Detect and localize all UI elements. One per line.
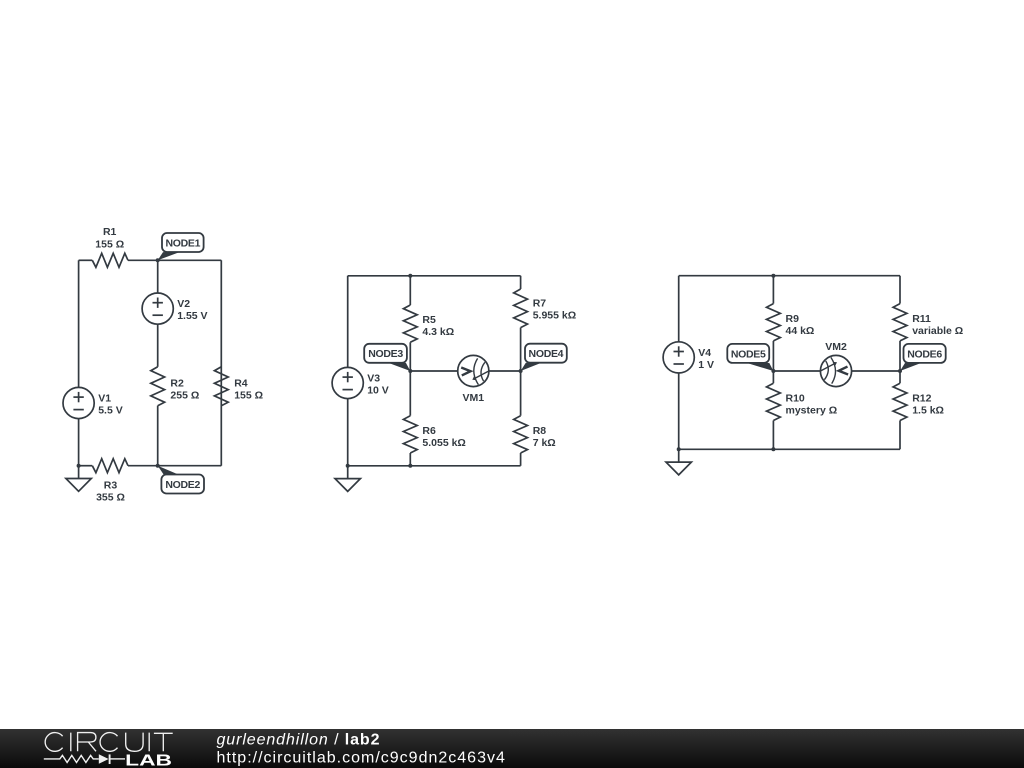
node NODE5 flag: [747, 363, 773, 371]
resistor R2: [151, 367, 165, 406]
junction dot circuit2 bottom-mid: [408, 464, 412, 468]
svg-text:1 V: 1 V: [698, 359, 714, 371]
resistor R6: [403, 416, 417, 453]
resistor R12: [893, 383, 907, 420]
logo CIRCUIT thin letters: [45, 733, 173, 752]
svg-text:R2: R2: [170, 377, 184, 389]
node NODE4 flag: [521, 363, 542, 371]
resistor R11: [893, 304, 907, 341]
junction dot node4: [519, 369, 523, 373]
svg-text:R1: R1: [103, 226, 117, 238]
svg-text:4.3 kΩ: 4.3 kΩ: [422, 326, 454, 338]
wire: circuit1 top-left segment: [79, 259, 93, 261]
junction dot circuit3 bottom-mid: [771, 447, 775, 451]
wire: VM1 to node4: [489, 370, 521, 372]
svg-text:R12: R12: [912, 393, 931, 405]
wire: circuit1 left branch lower: [78, 419, 80, 466]
wire: circuit3 left branch lower: [678, 373, 680, 449]
wire: R11 to R12 through node6: [899, 341, 901, 383]
wire: circuit1 bottom left stub: [79, 465, 93, 467]
ground circuit3: [678, 449, 680, 462]
wire: circuit1 top to node1: [128, 259, 221, 261]
resistor R1: [92, 253, 128, 267]
svg-text:NODE4: NODE4: [529, 348, 564, 360]
wire: circuit3 left branch upper: [678, 276, 680, 342]
wire: circuit1 right branch: [220, 260, 222, 465]
wire: V2 to R2: [157, 324, 159, 367]
voltage source V2: [142, 293, 173, 324]
junction dot node1: [156, 258, 160, 262]
wire: circuit1 bottom to right: [128, 465, 221, 467]
voltmeter VM2: [820, 355, 851, 386]
wire: circuit2 mid branch top: [409, 276, 411, 305]
wire: circuit2 top rail: [348, 275, 521, 277]
wire: R10 to bottom rail: [772, 421, 774, 450]
wire: R7 to R8 through node4: [520, 328, 522, 416]
svg-text:NODE3: NODE3: [368, 348, 403, 360]
junction dot node2: [156, 464, 160, 468]
resistor R9: [767, 304, 781, 341]
svg-text:R10: R10: [786, 393, 805, 405]
wire: R9 to node5: [772, 341, 774, 371]
wire: circuit2 left branch upper: [347, 276, 349, 368]
resistor R4: [214, 367, 228, 406]
junction dot node3: [408, 369, 412, 373]
svg-text:5.955 kΩ: 5.955 kΩ: [533, 310, 576, 322]
svg-text:LAB: LAB: [125, 752, 172, 768]
svg-text:1.55 V: 1.55 V: [177, 310, 207, 322]
junction dot circuit3 bottom-left: [677, 447, 681, 451]
wire: circuit3 bottom rail: [679, 448, 900, 450]
wire: R5 to node3: [409, 342, 411, 371]
svg-text:7 kΩ: 7 kΩ: [533, 437, 556, 449]
svg-text:NODE1: NODE1: [165, 237, 200, 249]
svg-text:355 Ω: 355 Ω: [96, 492, 125, 504]
svg-text:255 Ω: 255 Ω: [170, 389, 199, 401]
wire: circuit3 mid branch top: [772, 276, 774, 304]
svg-text:155 Ω: 155 Ω: [234, 389, 263, 401]
wire: node1 down to V2: [157, 260, 159, 293]
svg-text:V1: V1: [98, 392, 111, 404]
svg-text:10 V: 10 V: [367, 384, 389, 396]
wire: circuit2 left branch lower: [347, 399, 349, 466]
svg-text:R3: R3: [104, 480, 118, 492]
svg-text:R8: R8: [533, 425, 547, 437]
svg-text:5.055 kΩ: 5.055 kΩ: [422, 437, 465, 449]
svg-text:R11: R11: [912, 313, 931, 325]
wire: R12 to bottom rail: [899, 421, 901, 450]
svg-text:variable Ω: variable Ω: [912, 325, 963, 337]
svg-text:R7: R7: [533, 298, 547, 310]
ground circuit2: [347, 466, 349, 479]
voltage source V1: [63, 387, 94, 418]
junction dot circuit1 bottom-left: [77, 464, 81, 468]
svg-text:gurleendhillon / lab2: gurleendhillon / lab2: [217, 731, 381, 748]
wire: circuit1 left branch upper: [78, 260, 80, 387]
node NODE2 flag: [158, 466, 179, 475]
resistor R7: [514, 289, 528, 328]
wire: R6 to bottom rail: [409, 453, 411, 466]
wire: circuit2 right branch top: [520, 276, 522, 289]
junction dot node6: [898, 369, 902, 373]
logo resistor-diode glyph: [44, 755, 99, 762]
svg-text:http://circuitlab.com/c9c9dn2c: http://circuitlab.com/c9c9dn2c463v4: [217, 749, 506, 766]
svg-text:R5: R5: [422, 314, 436, 326]
wire: node3 to VM1: [410, 370, 457, 372]
wire: node3 to R6: [409, 371, 411, 416]
resistor R3: [92, 459, 128, 473]
node NODE3 flag: [389, 363, 411, 371]
wire: circuit2 bottom rail: [348, 465, 521, 467]
voltage source V4: [663, 342, 694, 373]
svg-text:NODE6: NODE6: [907, 348, 942, 360]
resistor R8: [514, 416, 528, 453]
resistor R5: [403, 305, 417, 342]
wire: circuit3 top rail: [679, 275, 900, 277]
wire: circuit3 right branch top: [899, 276, 901, 304]
voltmeter VM1: [458, 355, 489, 386]
voltage source V3: [332, 367, 363, 398]
svg-text:R6: R6: [422, 425, 436, 437]
svg-text:44 kΩ: 44 kΩ: [786, 325, 815, 337]
wire: node5 to R10: [772, 371, 774, 383]
svg-text:VM1: VM1: [463, 392, 485, 404]
node NODE1 flag: [158, 252, 180, 260]
junction dot circuit2 top: [408, 274, 412, 278]
junction dot circuit3 top: [771, 274, 775, 278]
svg-text:V2: V2: [177, 298, 190, 310]
svg-text:1.5 kΩ: 1.5 kΩ: [912, 405, 944, 417]
ground circuit1: [78, 466, 80, 479]
svg-text:NODE5: NODE5: [731, 348, 766, 360]
svg-text:V3: V3: [367, 372, 380, 384]
junction dot node5: [771, 369, 775, 373]
junction dot circuit2 bottom-left: [346, 464, 350, 468]
svg-text:VM2: VM2: [825, 341, 847, 353]
resistor R10: [767, 383, 781, 420]
wire: VM2 to node6: [852, 370, 900, 372]
svg-text:mystery Ω: mystery Ω: [786, 405, 838, 417]
node NODE6 flag: [900, 363, 921, 371]
svg-text:155 Ω: 155 Ω: [95, 239, 124, 251]
svg-text:5.5 V: 5.5 V: [98, 404, 123, 416]
svg-text:V4: V4: [698, 347, 711, 359]
wire: R2 to bottom: [157, 406, 159, 466]
wire: R8 to bottom rail: [520, 453, 522, 466]
svg-text:NODE2: NODE2: [165, 479, 200, 491]
svg-text:R9: R9: [786, 313, 800, 325]
svg-text:R4: R4: [234, 377, 248, 389]
wire: node5 to VM2: [773, 370, 820, 372]
